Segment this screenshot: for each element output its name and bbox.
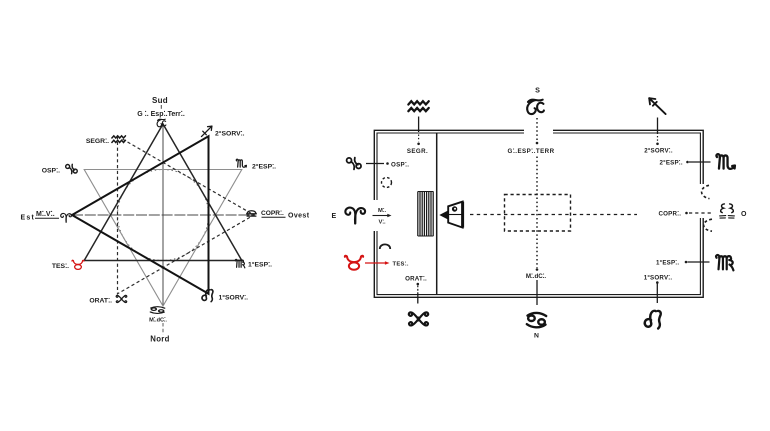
zodiac Virgo 1 ESP [235, 259, 245, 267]
dashed wire throne to altar [470, 214, 502, 216]
zodiac Aquarius SEGR outside [408, 101, 428, 111]
zodiac Aries M V [61, 213, 72, 222]
svg-text:E: E [332, 213, 337, 220]
water trine triangle (thin) Pisces-Scorpio-Cancer [84, 170, 242, 307]
axis stub below Sud [160, 105, 162, 109]
hatched stand [418, 192, 434, 237]
dashed wire COPR to Libra [689, 212, 711, 214]
zodiac Taurus red [72, 260, 84, 269]
zodiac Cancer M d C [150, 307, 164, 314]
svg-text:M·..: M·.. [378, 206, 386, 214]
axis Sud-Nord [162, 124, 164, 306]
svg-text:SEGR·..: SEGR·.. [86, 136, 109, 145]
dashed wire through altar [504, 214, 571, 216]
air trine triangle (dashed) Aquarius-Libra-Gemini [118, 136, 255, 294]
wall top-left outer [374, 130, 524, 200]
vestibule divider wall [436, 133, 438, 295]
wire 2 ESP to Scorpio [689, 161, 711, 163]
svg-text:Sud: Sud [152, 96, 168, 105]
zodiac Aquarius SEGR [112, 136, 126, 143]
svg-text:2°SORV·..: 2°SORV·.. [215, 129, 245, 138]
svg-text:SEGR.: SEGR. [407, 148, 428, 155]
dashed column arc right lower [704, 219, 712, 231]
wall bottom U inner [377, 218, 700, 295]
dashed wire ORAT down [417, 286, 419, 294]
svg-text:V·..: V·.. [379, 218, 387, 226]
zodiac Gemini ORAT [116, 295, 127, 302]
altar dashed rectangle [505, 195, 571, 232]
dashed wire altar to COPR [573, 214, 637, 216]
svg-text:OSP·..: OSP·.. [42, 166, 60, 175]
svg-text:M·..V·..: M·..V·.. [36, 209, 55, 218]
axis tail to Nord label [162, 323, 164, 335]
zodiac Leo outside [645, 311, 661, 329]
svg-text:M·..dC·..: M·..dC·.. [526, 271, 546, 280]
dashed column circle upper [382, 178, 392, 188]
svg-text:COPR·..: COPR·.. [659, 209, 682, 218]
zodiac Pisces OSP outside [347, 158, 361, 170]
svg-text:ORAT·..: ORAT·.. [89, 296, 112, 305]
zodiac Libra COPR [247, 211, 257, 216]
red wire to TES [365, 262, 386, 264]
entrance wire with arrow [373, 215, 389, 217]
svg-text:ORAT·..: ORAT·.. [405, 274, 427, 283]
wire Aquarius to wall [418, 117, 420, 133]
solid column arc lower [380, 244, 390, 249]
zodiac Sagittarius arrow outside [649, 98, 665, 114]
svg-text:Est: Est [21, 215, 36, 222]
wall top-left inner [377, 133, 524, 200]
zodiac Taurus red outside [345, 256, 363, 270]
svg-text:1°SORV·..: 1°SORV·.. [644, 273, 673, 282]
earth trine triangle Capricorn-Virgo-Taurus [84, 124, 242, 261]
wire 1 ESP to Virgo [688, 261, 710, 263]
svg-text:1°SORV·..: 1°SORV·.. [219, 293, 249, 302]
dotted centre wire vertical [536, 157, 538, 269]
svg-text:TES·..: TES·.. [393, 260, 409, 268]
svg-text:1°ESP·..: 1°ESP·.. [656, 258, 679, 267]
svg-text:N: N [534, 333, 539, 340]
svg-text:G·..ESP·..TERR: G·..ESP·..TERR [507, 146, 554, 155]
svg-text:TES·..: TES·.. [52, 261, 69, 270]
throne of the Master [439, 202, 462, 228]
svg-text:O: O [741, 211, 747, 218]
svg-text:Ovest: Ovest [288, 213, 310, 220]
wire M d C to Cancer [536, 280, 538, 305]
zodiac Virgo outside [716, 255, 733, 270]
zodiac Scorpio 2 ESP [236, 159, 246, 167]
svg-text:OSP·..: OSP·.. [391, 160, 409, 169]
svg-text:G ·.. Esp·..Terr·..: G ·.. Esp·..Terr·.. [137, 109, 185, 118]
svg-text:S: S [535, 86, 540, 95]
zodiac Aries entrance [345, 208, 365, 224]
dotted wire to 2 SORV [657, 136, 659, 142]
wire through wall to Gemini [417, 293, 419, 304]
svg-text:M·..dC·..: M·..dC·.. [149, 316, 167, 324]
svg-text:Nord: Nord [150, 335, 169, 344]
wire 1 SORV to Leo [656, 284, 658, 304]
svg-text:2°ESP·..: 2°ESP·.. [660, 158, 683, 167]
dotted wire to SEGR [418, 135, 420, 142]
svg-text:2°SORV·..: 2°SORV·.. [644, 146, 673, 155]
dotted wire S to G ESP TERR [536, 118, 538, 141]
svg-text:1°ESP·..: 1°ESP·.. [248, 260, 272, 269]
svg-text:2°ESP·..: 2°ESP·.. [252, 162, 276, 171]
zodiac Pisces OSP [66, 164, 78, 173]
zodiac Libra outside [720, 204, 735, 218]
svg-text:COPR·..: COPR·.. [261, 208, 284, 217]
zodiac Sagittarius 2 SORV [201, 126, 211, 136]
wall bottom U outer [374, 218, 703, 297]
wall top-right inner [553, 133, 700, 184]
zodiac Scorpio outside [717, 154, 735, 169]
zodiac Capricorn S outside [527, 100, 544, 114]
zodiac Leo 1 SORV [202, 290, 213, 302]
fire trine triangle (thick) Aries-Sagittarius-Leo [72, 136, 209, 294]
zodiac Cancer Nord outside [527, 313, 546, 327]
wall top-right outer [553, 130, 703, 184]
zodiac Gemini ORAT outside [409, 312, 428, 325]
wire arrow to wall [657, 118, 659, 135]
dashed column arc right upper [702, 185, 710, 198]
wire Pisces to OSP [366, 163, 384, 165]
axis Est-Ovest [72, 214, 254, 216]
dotted inscribed circle [118, 170, 209, 261]
zodiac Capricorn Sud [157, 119, 166, 127]
